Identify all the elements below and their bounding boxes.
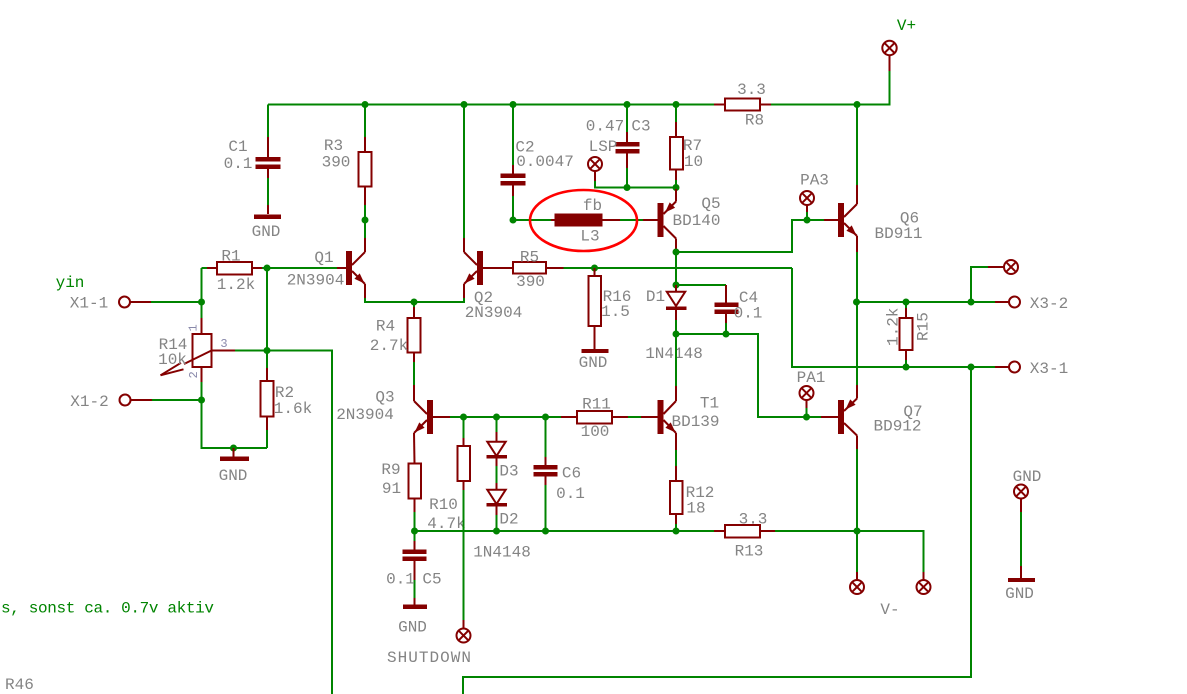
svg-text:BD911: BD911	[874, 225, 922, 243]
svg-text:1.6k: 1.6k	[274, 400, 312, 418]
resistor R3	[322, 105, 372, 221]
wire R5 to feedback corner	[564, 267, 793, 269]
wire R1 to Q1 base	[262, 267, 337, 269]
svg-text:PA3: PA3	[800, 172, 829, 190]
junction bus at R3	[362, 101, 369, 108]
svg-text:PA1: PA1	[797, 369, 826, 387]
capacitor C6	[534, 417, 585, 531]
svg-text:2.7k: 2.7k	[370, 337, 408, 355]
wire divider column	[266, 268, 268, 368]
wire Q2 collector to bus	[463, 105, 465, 239]
svg-text:X1-1: X1-1	[70, 295, 108, 313]
svg-text:GND: GND	[219, 467, 248, 485]
diode D3	[487, 417, 519, 481]
capacitor C5	[386, 531, 442, 605]
wire input column	[201, 268, 203, 318]
svg-text:1.2k: 1.2k	[885, 308, 903, 346]
connector PA1	[797, 369, 826, 417]
svg-text:91: 91	[382, 480, 401, 498]
junction output at R15	[903, 299, 910, 306]
svg-text:X3-1: X3-1	[1030, 360, 1068, 378]
wire R2 bottom to ground rail	[266, 430, 268, 448]
wire wiper to feedback column	[235, 351, 332, 694]
junction base rail at C6	[542, 414, 549, 421]
junction bus at C3	[624, 101, 631, 108]
svg-text:R3: R3	[324, 137, 343, 155]
junction bus at Q6 collector	[854, 101, 861, 108]
svg-text:C5: C5	[422, 571, 441, 589]
capacitor C3	[586, 105, 651, 188]
junction X3-1 rail at riser	[968, 364, 975, 371]
junction bottom rail at R9	[411, 528, 418, 535]
svg-text:V-: V-	[880, 601, 899, 619]
wire input column to ground rail	[202, 382, 268, 448]
ground symbol below C5	[398, 605, 427, 637]
junction ground rail	[230, 445, 237, 452]
junction bottom rail at R12	[673, 528, 680, 535]
wire T1 emitter to R12	[675, 450, 677, 466]
svg-text:18: 18	[686, 500, 705, 518]
svg-text:R8: R8	[745, 112, 764, 130]
wire D1 top to C4	[676, 284, 726, 286]
junction PA1 node	[803, 414, 810, 421]
svg-text:1: 1	[187, 324, 201, 331]
junction output node	[853, 299, 860, 306]
svg-text:V+: V+	[897, 17, 916, 35]
svg-text:Q3: Q3	[375, 389, 394, 407]
wire X1-2 to node	[152, 399, 202, 401]
diode D2	[473, 466, 531, 562]
svg-text:D2: D2	[499, 511, 518, 529]
svg-text:2N3904: 2N3904	[287, 272, 345, 290]
svg-text:T1: T1	[700, 395, 719, 413]
junction bus at C2	[510, 101, 517, 108]
junction PA3 node	[804, 217, 811, 224]
resistor R5	[483, 249, 564, 292]
resistor R8	[714, 81, 771, 130]
wire Q1 collector to bus	[364, 220, 366, 238]
svg-text:C6: C6	[562, 465, 581, 483]
wire Q6 collector to bus	[856, 105, 858, 186]
resistor R15	[885, 302, 933, 367]
transistor Q6	[824, 185, 923, 252]
svg-text:3.3: 3.3	[739, 511, 768, 529]
svg-text:3.3: 3.3	[737, 81, 766, 99]
wire top supply bus right segment	[771, 71, 890, 105]
wire bottom rail left	[415, 530, 715, 532]
resistor R13	[714, 511, 775, 561]
wire GND right column	[1020, 512, 1022, 566]
junction D1 bottom	[673, 331, 680, 338]
svg-text:R9: R9	[381, 461, 400, 479]
svg-text:0.1: 0.1	[556, 485, 585, 503]
junction Q5 collector	[673, 249, 680, 256]
svg-text:GND: GND	[1005, 585, 1034, 603]
svg-text:BD140: BD140	[672, 212, 720, 230]
potentiometer R14	[158, 318, 235, 382]
svg-text:LSP: LSP	[589, 138, 618, 156]
svg-text:X1-2: X1-2	[70, 393, 108, 411]
svg-text:fb: fb	[583, 197, 602, 215]
svg-text:1.5: 1.5	[601, 303, 630, 321]
svg-text:R4: R4	[376, 318, 395, 336]
svg-text:BD912: BD912	[873, 418, 921, 436]
svg-text:L3: L3	[580, 228, 599, 246]
transistor T1	[641, 386, 720, 450]
connector V- right	[880, 572, 930, 619]
transistor Q2	[464, 238, 522, 322]
svg-text:GND: GND	[579, 354, 608, 372]
svg-text:R11: R11	[582, 396, 611, 414]
svg-text:C1: C1	[228, 138, 247, 156]
svg-text:0.1: 0.1	[224, 155, 253, 173]
svg-text:100: 100	[581, 423, 610, 441]
svg-text:390: 390	[322, 154, 351, 172]
junction LSP rail at R7	[673, 184, 680, 191]
connector X1-2	[70, 393, 152, 411]
wire Q7 emitter to output node	[856, 302, 858, 385]
connector X3-1	[995, 360, 1068, 378]
wire Q7 collector down	[856, 449, 858, 531]
svg-text:R15: R15	[915, 312, 933, 341]
svg-text:R13: R13	[735, 543, 764, 561]
wire D1 column top	[675, 252, 677, 285]
svg-text:R5: R5	[520, 249, 539, 267]
svg-text:10: 10	[684, 153, 703, 171]
inductor L3	[513, 197, 643, 246]
junction L3 rail at R3	[362, 217, 369, 224]
junction wiper node	[264, 347, 271, 354]
wire riser to upper pad	[971, 267, 988, 302]
ground symbol left	[219, 448, 249, 485]
svg-text:GND: GND	[252, 223, 281, 241]
junction LSP rail at C3	[624, 184, 631, 191]
capacitor C4	[715, 285, 763, 334]
svg-text:0.0047: 0.0047	[516, 153, 574, 171]
junction X1-1 node	[198, 299, 205, 306]
ground symbol below R16	[579, 349, 609, 372]
svg-text:2: 2	[187, 371, 201, 378]
svg-text:Q5: Q5	[701, 195, 720, 213]
wire LSP to C3/R7 rail	[595, 181, 676, 188]
junction bottom rail at C6	[542, 528, 549, 535]
junction bus at R7	[673, 101, 680, 108]
capacitor C1	[224, 105, 281, 215]
wire emitter rail Q1-Q2	[365, 298, 464, 302]
wire V- left drop	[856, 531, 858, 572]
wire Q5 collector to Q6 base	[676, 220, 824, 252]
svg-text:1N4148: 1N4148	[645, 345, 703, 363]
svg-text:C3: C3	[631, 118, 650, 136]
connector PA3	[800, 172, 829, 221]
resistor R10	[427, 417, 470, 533]
connector X3-2	[995, 295, 1068, 313]
wire X1-1 to input node	[151, 301, 202, 303]
transistor Q5	[643, 189, 721, 249]
svg-text:s, sonst ca. 0.7v aktiv: s, sonst ca. 0.7v aktiv	[1, 600, 214, 618]
resistor R11	[561, 396, 641, 442]
transistor Q7	[821, 385, 923, 449]
svg-text:0.47: 0.47	[586, 118, 624, 136]
diode D1	[645, 285, 703, 363]
ground symbol below C1	[252, 215, 281, 242]
annotation red ellipse around L3	[530, 190, 637, 251]
wire D1 bottom rail to Q7 base	[676, 334, 821, 417]
junction X3-1 rail at R15	[903, 364, 910, 371]
svg-text:D3: D3	[499, 463, 518, 481]
power connector V+	[882, 17, 916, 71]
resistor R2	[261, 368, 313, 430]
resistor R12	[670, 466, 714, 531]
svg-text:2N3904: 2N3904	[336, 406, 394, 424]
svg-text:BD139: BD139	[671, 413, 719, 431]
resistor R7	[670, 105, 703, 188]
junction bottom rail at D2	[493, 528, 500, 535]
connector V- left	[850, 572, 864, 594]
transistor Q3	[336, 385, 450, 464]
capacitor C2	[501, 105, 574, 221]
wire R10 to shutdown	[463, 490, 465, 620]
junction bottom rail at V-	[854, 528, 861, 535]
junction L3 rail at C2	[510, 217, 517, 224]
resistor R16	[589, 268, 632, 349]
resistor R1	[202, 248, 263, 295]
svg-text:1N4148: 1N4148	[473, 544, 531, 562]
junction emitter rail at R4	[411, 299, 418, 306]
svg-text:GND: GND	[1013, 468, 1042, 486]
svg-text:10k: 10k	[158, 351, 187, 369]
junction R1 right	[264, 265, 271, 272]
svg-text:R46: R46	[5, 676, 34, 694]
svg-text:SHUTDOWN: SHUTDOWN	[387, 649, 471, 667]
svg-text:1.2k: 1.2k	[217, 276, 255, 294]
svg-text:R10: R10	[429, 496, 458, 514]
wire bottom return path	[463, 367, 971, 694]
junction base rail at D3	[493, 414, 500, 421]
svg-text:3: 3	[220, 337, 227, 351]
wire T1 collector riser	[675, 334, 677, 386]
junction C4 bottom	[723, 331, 730, 338]
svg-text:Q1: Q1	[314, 249, 333, 267]
connector pad upper right	[988, 260, 1018, 274]
connector X1-1	[70, 295, 151, 313]
wire output rail to X3-2	[857, 301, 996, 303]
svg-text:R1: R1	[221, 248, 240, 266]
connector GND right pad	[1013, 468, 1042, 512]
transistor Q1	[287, 238, 365, 298]
junction base rail at R10	[460, 414, 467, 421]
wire base rail Q3 to R11	[450, 416, 561, 418]
svg-text:GND: GND	[398, 619, 427, 637]
wire Q6 emitter to output node	[856, 252, 858, 302]
connector LSP	[588, 138, 617, 181]
wire bottom rail right	[775, 531, 924, 572]
svg-text:2N3904: 2N3904	[465, 304, 523, 322]
resistor R4	[370, 302, 421, 385]
wire X3-1 rail	[792, 268, 995, 367]
ground symbol right	[1005, 566, 1035, 603]
wire top supply bus left segment	[268, 104, 714, 106]
junction X1-2 node	[198, 397, 205, 404]
junction D1 top	[673, 282, 680, 289]
junction bus at Q2 collector	[461, 101, 468, 108]
svg-text:0.1: 0.1	[734, 305, 763, 323]
resistor R9	[381, 461, 421, 531]
svg-text:0.1: 0.1	[386, 571, 415, 589]
connector SHUTDOWN	[387, 620, 471, 667]
junction R16 top	[591, 265, 598, 272]
svg-text:yin: yin	[56, 274, 85, 292]
junction output at riser	[968, 299, 975, 306]
svg-text:D1: D1	[646, 288, 665, 306]
svg-text:X3-2: X3-2	[1030, 295, 1068, 313]
svg-text:390: 390	[516, 273, 545, 291]
